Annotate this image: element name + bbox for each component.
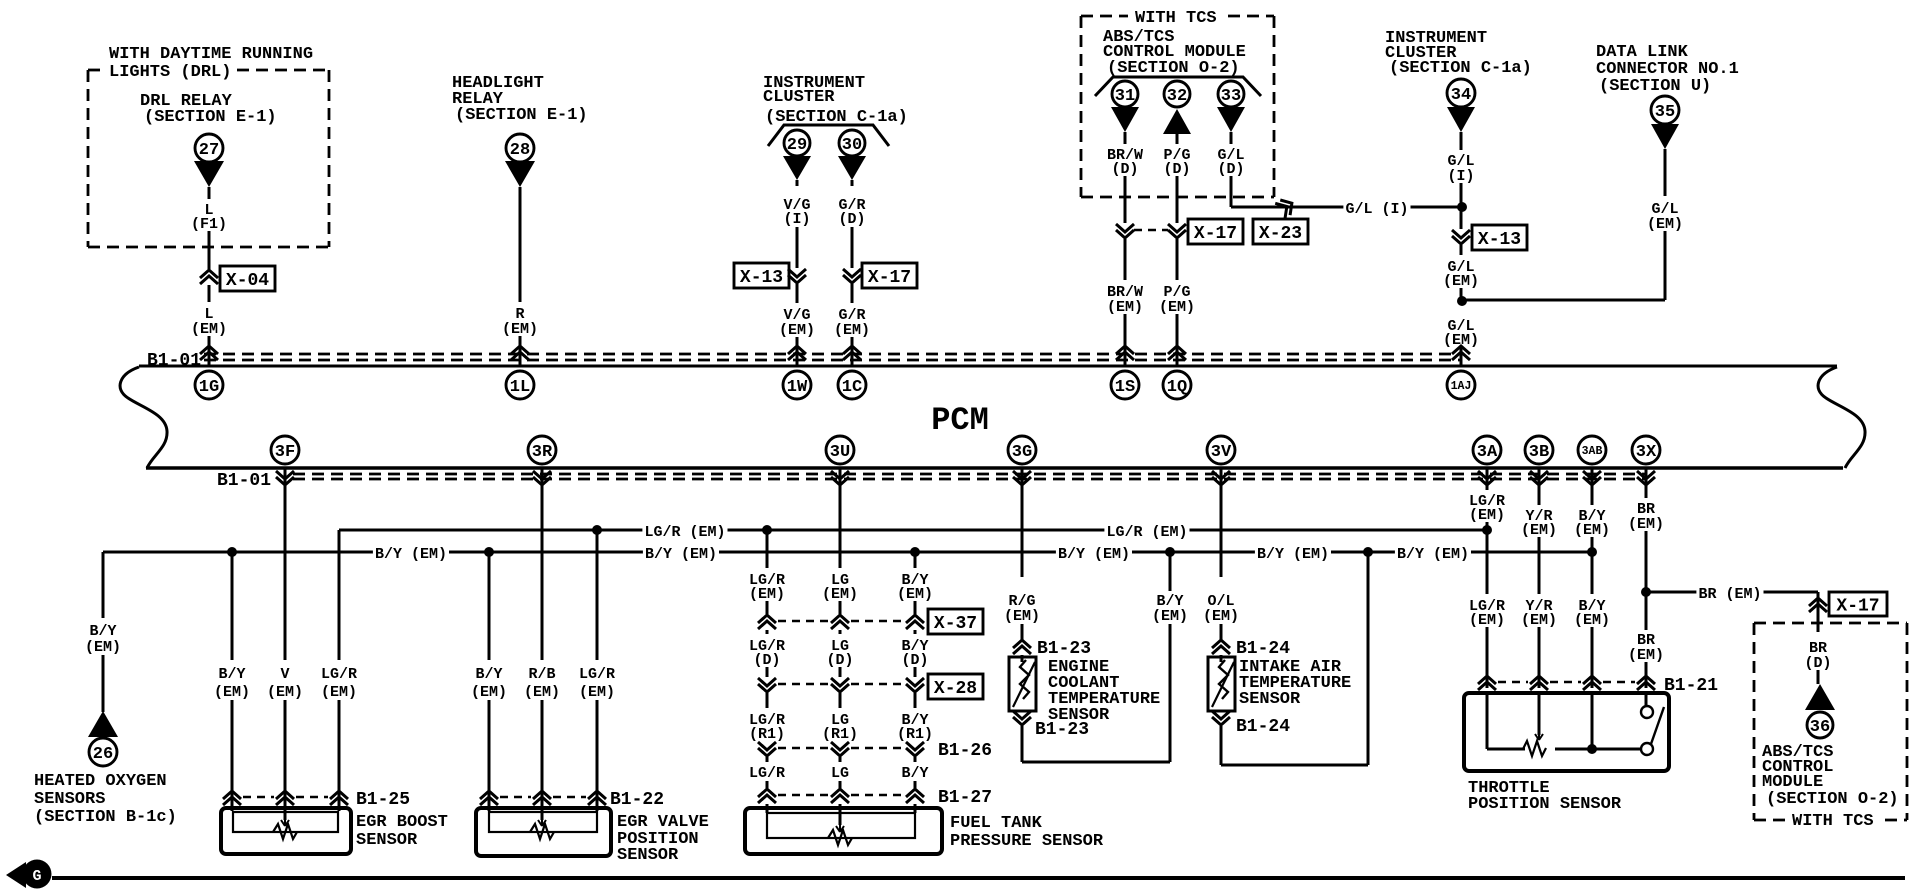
- svg-text:(SECTION B-1c): (SECTION B-1c): [34, 808, 177, 827]
- bus chevron 3G: [1013, 471, 1031, 479]
- svg-text:(SECTION U): (SECTION U): [1599, 77, 1711, 96]
- arrow 32 (pointing up): [1163, 109, 1191, 134]
- svg-text:V: V: [280, 666, 289, 683]
- svg-text:3F: 3F: [275, 443, 295, 462]
- PCM pin 1Q: [1163, 371, 1191, 399]
- connector X-04 label box: [220, 266, 275, 291]
- coolant sensor return wire: [1021, 726, 1024, 762]
- wire G/L (I) horizontal run: [1231, 206, 1462, 209]
- connector circle 31: [1112, 81, 1138, 107]
- wire BR/W (D): [1124, 132, 1127, 144]
- wire R (EM): [519, 187, 522, 302]
- bus B1-01 bottom dashed lines: [293, 473, 1647, 476]
- connector B1-23 chevron top: [1013, 646, 1031, 654]
- wire R/G (EM) from 3G: [1021, 468, 1024, 577]
- PCM module box bottom edge: [146, 466, 1843, 470]
- wire BR (EM) from 3X: [1645, 468, 1648, 498]
- svg-text:1W: 1W: [787, 378, 808, 397]
- svg-text:3U: 3U: [830, 443, 850, 462]
- PCM pin 1W: [783, 371, 811, 399]
- PCM pin 3AB: [1578, 436, 1606, 464]
- svg-text:(EM): (EM): [1521, 612, 1557, 629]
- TPS switch: [1645, 693, 1648, 706]
- arrow 33: [1217, 107, 1245, 132]
- connector circle 36: [1807, 712, 1833, 738]
- svg-text:(EM): (EM): [1203, 608, 1239, 625]
- wire G/L (EM) from DLC: [1664, 149, 1667, 196]
- svg-text:B1-24: B1-24: [1236, 717, 1290, 737]
- svg-text:B/Y: B/Y: [901, 765, 928, 782]
- connector circle 33: [1218, 81, 1244, 107]
- svg-text:(F1): (F1): [191, 216, 227, 233]
- wire B/Y (EM) EGR boost: [231, 552, 234, 660]
- svg-text:B1-22: B1-22: [610, 790, 664, 810]
- svg-text:(EM): (EM): [897, 586, 933, 603]
- svg-text:(D): (D): [838, 211, 865, 228]
- bus chevron 3B: [1530, 471, 1548, 479]
- bus chevron 1Q: [1168, 352, 1186, 360]
- bus chevron 3A: [1478, 471, 1496, 479]
- PCM pin 1L: [506, 371, 534, 399]
- PCM pin 1AJ: [1447, 371, 1475, 399]
- svg-text:32: 32: [1167, 87, 1187, 106]
- EGR valve sensor element: [530, 824, 554, 839]
- wire BR (EM) branch: [1646, 591, 1818, 594]
- svg-text:SENSOR: SENSOR: [356, 831, 418, 850]
- svg-text:LG/R (EM): LG/R (EM): [1106, 524, 1187, 541]
- svg-text:(EM): (EM): [267, 684, 303, 701]
- svg-text:B1-01: B1-01: [147, 351, 201, 371]
- svg-text:SENSOR: SENSOR: [1239, 690, 1301, 709]
- svg-text:FUEL TANK: FUEL TANK: [950, 814, 1043, 833]
- svg-text:SENSOR: SENSOR: [617, 846, 679, 865]
- footer line: [52, 876, 1905, 880]
- wires (R1) segment: [766, 693, 769, 708]
- bus chevron 1L: [511, 352, 529, 360]
- svg-text:1L: 1L: [510, 378, 530, 397]
- PCM module box top edge: [139, 365, 1837, 368]
- connector B1-26 chevrons: [758, 742, 776, 750]
- arrow 31: [1111, 107, 1139, 132]
- arrow 30: [838, 156, 866, 180]
- connector X-23 chevron: [1275, 196, 1297, 219]
- svg-text:(R1): (R1): [822, 726, 858, 743]
- connector X-28 chevrons: [758, 678, 776, 686]
- wire G/L (EM) upper: [1460, 245, 1463, 255]
- fuel tank pressure sensor box: [745, 808, 942, 854]
- PCM pin 3R: [528, 436, 556, 464]
- connector X-17 chevron: [843, 269, 861, 277]
- with-DRL option dashed box: [88, 69, 104, 72]
- svg-text:3V: 3V: [1211, 443, 1232, 462]
- svg-text:(EM): (EM): [85, 639, 121, 656]
- svg-text:(EM): (EM): [321, 684, 357, 701]
- connector circle 26: [89, 738, 117, 766]
- svg-text:(EM): (EM): [749, 586, 785, 603]
- svg-text:26: 26: [93, 745, 113, 764]
- bus chevron 1S: [1116, 352, 1134, 360]
- svg-text:(D): (D): [1804, 655, 1831, 672]
- svg-text:B1-27: B1-27: [938, 788, 992, 808]
- svg-text:G: G: [32, 868, 41, 885]
- connector X-13 chevron (34): [1452, 230, 1470, 238]
- wire LG/R (EM) EGR boost: [338, 530, 341, 660]
- connector X-17 chevron (31): [1116, 224, 1134, 232]
- svg-text:B1-01: B1-01: [217, 471, 271, 491]
- wire to X-13: [1460, 207, 1463, 229]
- PCM pin 1S: [1111, 371, 1139, 399]
- svg-text:X-28: X-28: [934, 679, 977, 699]
- junction LG/R at 3A: [1482, 525, 1492, 535]
- wire BR (D): [1817, 623, 1820, 632]
- svg-text:1S: 1S: [1115, 378, 1135, 397]
- connector X-17 chevron (BR): [1809, 604, 1827, 612]
- svg-text:(D): (D): [826, 652, 853, 669]
- svg-text:B/Y (EM): B/Y (EM): [375, 546, 447, 563]
- wire V/G (EM): [796, 284, 799, 303]
- connector X-17 label box (BR): [1829, 592, 1887, 616]
- svg-text:G/L (I): G/L (I): [1345, 201, 1408, 218]
- svg-text:28: 28: [510, 141, 530, 160]
- ABS/TCS bracket: [1095, 77, 1261, 96]
- bus chevron 3AB: [1583, 471, 1601, 479]
- connector X-13 chevron: [788, 269, 806, 277]
- wires final segment: [766, 757, 769, 762]
- svg-text:B/Y (EM): B/Y (EM): [1257, 546, 1329, 563]
- svg-text:X-17: X-17: [1194, 224, 1237, 244]
- svg-text:SENSOR: SENSOR: [1048, 706, 1110, 725]
- connector circle 30: [839, 130, 865, 156]
- svg-text:B1-23: B1-23: [1037, 639, 1091, 659]
- bus chevron 1C: [843, 352, 861, 360]
- svg-text:(EM): (EM): [524, 684, 560, 701]
- svg-text:LG/R: LG/R: [579, 666, 615, 683]
- svg-text:CLUSTER: CLUSTER: [763, 88, 835, 107]
- svg-text:(EM): (EM): [471, 684, 507, 701]
- bus chevron 1AJ: [1452, 352, 1470, 360]
- EGR boost sensor box: [221, 808, 351, 854]
- svg-text:SENSORS: SENSORS: [34, 790, 105, 809]
- svg-text:33: 33: [1221, 87, 1241, 106]
- junction B/Y at EGR boost: [227, 547, 237, 557]
- TPS wiper arrow from Y/R: [1538, 693, 1541, 735]
- svg-text:(EM): (EM): [502, 321, 538, 338]
- svg-text:X-04: X-04: [226, 271, 269, 291]
- connector X-04 chevron: [200, 276, 218, 284]
- wire DLC to junction horizontal: [1462, 299, 1665, 302]
- bus chevron 3R: [533, 471, 551, 479]
- svg-text:(EM): (EM): [1521, 522, 1557, 539]
- junction BR (EM): [1641, 587, 1651, 597]
- svg-text:(SECTION C-1a): (SECTION C-1a): [1389, 59, 1532, 78]
- svg-text:(SECTION E-1): (SECTION E-1): [455, 106, 588, 125]
- wire P/G (D): [1176, 134, 1179, 144]
- connector X-28 label box: [928, 674, 983, 699]
- wire B/Y (EM) EGR valve: [488, 552, 491, 660]
- intake air temperature sensor box: [1220, 655, 1223, 662]
- svg-text:(EM): (EM): [1628, 516, 1664, 533]
- svg-text:1Q: 1Q: [1167, 378, 1187, 397]
- connector X-17 label box: [1188, 219, 1243, 244]
- PCM pin 1G: [195, 371, 223, 399]
- svg-text:LG/R: LG/R: [749, 765, 785, 782]
- with-TCS lower dashed box: [1754, 622, 1907, 625]
- svg-text:3AB: 3AB: [1582, 445, 1603, 458]
- junction B/Y at intake sensor: [1363, 547, 1373, 557]
- connector circle 32: [1164, 81, 1190, 107]
- wire LG/R (EM) bus: [339, 529, 1487, 532]
- svg-text:WITH TCS: WITH TCS: [1792, 812, 1874, 831]
- junction B/Y at coolant sensor: [1165, 547, 1175, 557]
- wire L (EM): [208, 285, 211, 302]
- svg-text:(SECTION O-2): (SECTION O-2): [1766, 790, 1899, 809]
- svg-text:1C: 1C: [842, 378, 862, 397]
- bus chevron 1W: [788, 352, 806, 360]
- PCM pin 1C: [838, 371, 866, 399]
- svg-text:X-13: X-13: [740, 268, 783, 288]
- connector B1-23 chevron bottom: [1021, 711, 1024, 712]
- svg-text:EGR BOOST: EGR BOOST: [356, 813, 448, 832]
- arrow 29: [783, 156, 811, 180]
- svg-text:B1-25: B1-25: [356, 790, 410, 810]
- svg-text:R/B: R/B: [528, 666, 555, 683]
- svg-text:(EM): (EM): [1443, 273, 1479, 290]
- with-TCS option dashed box: [1081, 15, 1128, 18]
- svg-text:(EM): (EM): [1004, 608, 1040, 625]
- svg-text:B1-21: B1-21: [1664, 676, 1718, 696]
- svg-text:3G: 3G: [1012, 443, 1032, 462]
- junction B/Y at fuel tank: [910, 547, 920, 557]
- svg-text:(EM): (EM): [1574, 522, 1610, 539]
- svg-text:30: 30: [842, 136, 862, 155]
- svg-text:X-17: X-17: [1836, 596, 1879, 616]
- connector X-13 label box: [734, 263, 789, 288]
- svg-text:WITH DAYTIME RUNNING: WITH DAYTIME RUNNING: [109, 45, 313, 64]
- EGR valve position sensor box: [476, 808, 611, 856]
- svg-text:X-23: X-23: [1259, 224, 1302, 244]
- svg-text:(EM): (EM): [1628, 647, 1664, 664]
- svg-text:X-17: X-17: [868, 268, 911, 288]
- bus chevron 3U: [831, 471, 849, 479]
- wire LG/R fuel tank: [766, 530, 769, 568]
- svg-text:(EM): (EM): [1107, 299, 1143, 316]
- svg-text:(R1): (R1): [749, 726, 785, 743]
- connector X-23 label box: [1253, 219, 1308, 244]
- svg-text:(D): (D): [1163, 161, 1190, 178]
- junction G/L (I): [1457, 202, 1467, 212]
- svg-text:(D): (D): [753, 652, 780, 669]
- wire G/L (D): [1230, 132, 1233, 144]
- PCM pin 3U: [826, 436, 854, 464]
- TPS potentiometer: [1523, 741, 1546, 756]
- engine coolant temperature sensor box: [1021, 655, 1024, 662]
- arrow 34: [1447, 107, 1475, 132]
- svg-text:X-13: X-13: [1478, 230, 1521, 250]
- wire O/L (EM) from 3V: [1220, 468, 1223, 577]
- svg-text:35: 35: [1655, 103, 1675, 122]
- svg-text:(EM): (EM): [779, 322, 815, 339]
- heated oxygen sensors arrow: [88, 711, 118, 737]
- wire L (F1): [208, 187, 211, 199]
- svg-text:3B: 3B: [1529, 443, 1549, 462]
- junction LG/R at EGR valve: [592, 525, 602, 535]
- wire BR/W (EM): [1124, 239, 1127, 280]
- intake sensor thermistor: [1219, 660, 1228, 699]
- connector circle 29: [784, 130, 810, 156]
- svg-text:B/Y (EM): B/Y (EM): [1397, 546, 1469, 563]
- svg-text:B1-26: B1-26: [938, 741, 992, 761]
- svg-text:BR (EM): BR (EM): [1698, 586, 1761, 603]
- PCM pin 3A: [1473, 436, 1501, 464]
- svg-text:3A: 3A: [1477, 443, 1498, 462]
- connector B1-25 chevrons: [223, 797, 241, 805]
- junction LG/R at fuel tank: [762, 525, 772, 535]
- connector X-37 label box: [928, 609, 983, 634]
- connector X-37 chevrons: [758, 621, 776, 629]
- coolant sensor thermistor: [1020, 660, 1029, 699]
- PCM pin 3F: [271, 436, 299, 464]
- PCM right wavy edge: [1818, 367, 1865, 468]
- PCM pin 3B: [1525, 436, 1553, 464]
- svg-text:(EM): (EM): [1469, 612, 1505, 629]
- wire LG/R (EM) from 3A: [1486, 468, 1489, 490]
- svg-text:LG: LG: [831, 765, 849, 782]
- svg-text:(EM): (EM): [214, 684, 250, 701]
- wire G/R (EM): [851, 284, 854, 303]
- svg-text:(SECTION E-1): (SECTION E-1): [144, 108, 277, 127]
- svg-text:B/Y (EM): B/Y (EM): [1058, 546, 1130, 563]
- svg-text:LG/R (EM): LG/R (EM): [644, 524, 725, 541]
- DRL relay arrow: [194, 161, 224, 187]
- svg-text:1G: 1G: [199, 378, 219, 397]
- svg-text:(EM): (EM): [579, 684, 615, 701]
- svg-text:(I): (I): [1447, 168, 1474, 185]
- wire B/Y (EM) intake return: [1367, 552, 1370, 765]
- junction G/L (EM): [1457, 296, 1467, 306]
- svg-text:3X: 3X: [1636, 443, 1657, 462]
- wire B/Y (EM) bus: [103, 551, 1592, 554]
- svg-text:PRESSURE SENSOR: PRESSURE SENSOR: [950, 832, 1104, 851]
- wire B/Y (EM) to heated oxygen sensors: [102, 552, 105, 618]
- svg-text:(D): (D): [1217, 161, 1244, 178]
- svg-text:B1-24: B1-24: [1236, 639, 1290, 659]
- connector B1-22 chevrons: [480, 797, 498, 805]
- connector X-17 chevron (32): [1168, 224, 1186, 232]
- svg-text:34: 34: [1451, 86, 1471, 105]
- svg-text:(EM): (EM): [1647, 216, 1683, 233]
- svg-text:(D): (D): [1111, 161, 1138, 178]
- wire G/L (I) vertical: [1460, 132, 1463, 150]
- connector X-17 label box: [862, 263, 917, 288]
- svg-text:36: 36: [1810, 718, 1830, 737]
- bus B1-01 top dashed lines: [204, 353, 1462, 356]
- wire Y/R (EM) from 3B: [1538, 468, 1541, 505]
- svg-text:29: 29: [787, 136, 807, 155]
- dashes between chevrons: [1134, 229, 1168, 232]
- PCM pin 3X: [1632, 436, 1660, 464]
- wire LG from 3U: [839, 468, 842, 568]
- svg-text:31: 31: [1115, 87, 1135, 106]
- svg-text:HEATED OXYGEN: HEATED OXYGEN: [34, 772, 167, 791]
- EGR boost sensor element: [273, 824, 297, 839]
- fuel tank sensor element: [828, 830, 852, 845]
- junction B/Y at 3AB: [1587, 547, 1597, 557]
- connector B1-21 chevrons: [1478, 682, 1496, 690]
- wire P/G (EM): [1176, 239, 1179, 280]
- svg-text:1AJ: 1AJ: [1451, 380, 1472, 393]
- wire G/R (D): [851, 180, 854, 186]
- connector X-13 label box (34): [1472, 225, 1527, 250]
- wire LG/R (EM) EGR valve: [596, 530, 599, 660]
- TPS junction B/Y: [1591, 693, 1594, 749]
- connector circle 28: [506, 134, 534, 162]
- svg-text:(EM): (EM): [822, 586, 858, 603]
- svg-text:(EM): (EM): [1469, 507, 1505, 524]
- svg-text:(I): (I): [783, 211, 810, 228]
- instrument cluster bracket: [768, 125, 889, 146]
- svg-text:LIGHTS (DRL): LIGHTS (DRL): [109, 63, 231, 82]
- headlight relay arrow: [505, 161, 535, 187]
- wire B/Y (EM) from 3AB: [1591, 468, 1594, 505]
- ground reference badge G: [6, 862, 26, 888]
- bus chevron 3V: [1212, 471, 1230, 479]
- TPS internal wires: [1486, 693, 1489, 749]
- wires (D) segment: [766, 630, 769, 634]
- svg-text:(SECTION O-2): (SECTION O-2): [1107, 59, 1240, 78]
- junction B/Y at EGR valve: [484, 547, 494, 557]
- svg-text:POSITION SENSOR: POSITION SENSOR: [1468, 795, 1622, 814]
- bus chevron 3F: [276, 471, 294, 479]
- svg-text:(EM): (EM): [1152, 608, 1188, 625]
- svg-text:(EM): (EM): [191, 321, 227, 338]
- connector circle 27: [195, 134, 223, 162]
- svg-text:PCM: PCM: [931, 402, 989, 439]
- svg-text:B/Y: B/Y: [218, 666, 245, 683]
- PCM pin 3G: [1008, 436, 1036, 464]
- throttle position sensor box: [1464, 693, 1669, 771]
- arrow 35: [1651, 124, 1679, 149]
- svg-text:27: 27: [199, 141, 219, 160]
- connector circle 34: [1447, 79, 1475, 107]
- svg-text:B/Y: B/Y: [475, 666, 502, 683]
- svg-text:WITH TCS: WITH TCS: [1135, 9, 1217, 28]
- connector B1-27 chevrons: [758, 795, 776, 803]
- PCM left wavy edge: [120, 367, 167, 468]
- PCM pin 3V: [1207, 436, 1235, 464]
- bus chevron 1G: [200, 352, 218, 360]
- svg-text:(D): (D): [901, 652, 928, 669]
- wire V (EM) from 3F: [284, 468, 287, 660]
- wire B/Y (EM) coolant return: [1169, 552, 1172, 591]
- connector circle 35: [1651, 96, 1679, 124]
- svg-text:B/Y (EM): B/Y (EM): [645, 546, 717, 563]
- svg-text:LG/R: LG/R: [321, 666, 357, 683]
- svg-text:(EM): (EM): [1574, 612, 1610, 629]
- svg-text:B/Y: B/Y: [89, 623, 116, 640]
- svg-text:X-37: X-37: [934, 614, 977, 634]
- ABS/TCS arrow 36: [1805, 684, 1835, 710]
- connector B1-24 chevron top: [1212, 646, 1230, 654]
- wire V/G (I): [796, 180, 799, 186]
- svg-text:(EM): (EM): [834, 322, 870, 339]
- wire R/B (EM) from 3R: [541, 468, 544, 660]
- svg-text:3R: 3R: [532, 443, 553, 462]
- svg-text:(R1): (R1): [897, 726, 933, 743]
- connector B1-24 chevron bottom: [1212, 711, 1230, 719]
- wire B/Y fuel tank: [914, 552, 917, 568]
- svg-text:(EM): (EM): [1159, 299, 1195, 316]
- bus chevron 3X: [1637, 471, 1655, 479]
